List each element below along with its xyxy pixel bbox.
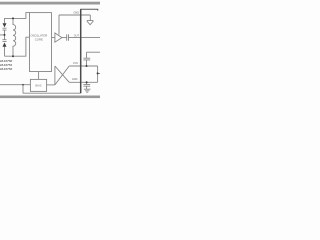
oscillator core box: [30, 13, 52, 72]
svg-text:GND: GND: [73, 12, 79, 15]
wire right rail: [98, 66, 100, 82]
node dot rail: [97, 72, 99, 74]
varactor D2 bars: [3, 40, 7, 42]
wire OUT line: [69, 37, 101, 39]
wire osc to bias: [38, 72, 40, 80]
svg-text:MAX2752: MAX2752: [0, 67, 12, 71]
svg-text:OUT: OUT: [74, 35, 80, 38]
node dot shdn gnd: [22, 84, 24, 86]
varactor D1 triangle: [3, 23, 7, 27]
ground bars bottom right: [84, 89, 91, 92]
chip right edge (dark): [80, 9, 82, 93]
capacitor C1 coupling: [67, 34, 69, 40]
bias box: [30, 79, 46, 91]
wire GND top feed: [59, 15, 90, 35]
wire crossover vertical: [54, 66, 56, 85]
node dot GND cap: [86, 81, 88, 83]
chip bottom edge: [23, 92, 81, 94]
chip top-right edge (dark): [80, 9, 98, 10]
svg-text:BIAS: BIAS: [35, 84, 41, 88]
node dot VCC cap: [86, 65, 88, 67]
svg-text:CORE: CORE: [35, 38, 43, 42]
wire tank top rail: [5, 13, 30, 24]
svg-text:GND: GND: [72, 78, 78, 81]
wire buffer to cap: [62, 37, 67, 39]
part numbers MAX2750/51/52: [0, 59, 12, 71]
wire GND pin line: [69, 81, 97, 83]
wire VCC pin line: [69, 65, 97, 67]
bottom page rule: [0, 96, 100, 99]
node dot varactor junction: [4, 34, 6, 36]
wire crossover diagonal down: [55, 66, 69, 82]
wire SHDN from left: [0, 84, 30, 86]
wire tank bottom rail: [5, 37, 30, 56]
op-amp buffer A1: [55, 33, 62, 42]
top page rule: [0, 2, 100, 5]
capacitor C3 plates: [83, 82, 90, 89]
capacitor C2 plates: [83, 52, 90, 66]
node dot tank bottom: [12, 55, 14, 57]
ground symbol top right: [87, 21, 94, 25]
wire TUNE stub: [0, 30, 5, 40]
wire osc to buffer: [52, 37, 55, 39]
wire BIAS output: [47, 84, 55, 86]
svg-text:VCC: VCC: [73, 62, 78, 65]
varactor D1 bars: [3, 28, 7, 30]
wire supply rail top: [87, 51, 101, 53]
page background: [0, 0, 100, 100]
wire crossover diagonal up: [55, 66, 69, 85]
inductor L1: [13, 18, 16, 56]
wire GND drop: [22, 85, 24, 94]
varactor D2 triangle: [3, 43, 7, 47]
node dot tank top: [12, 17, 14, 19]
